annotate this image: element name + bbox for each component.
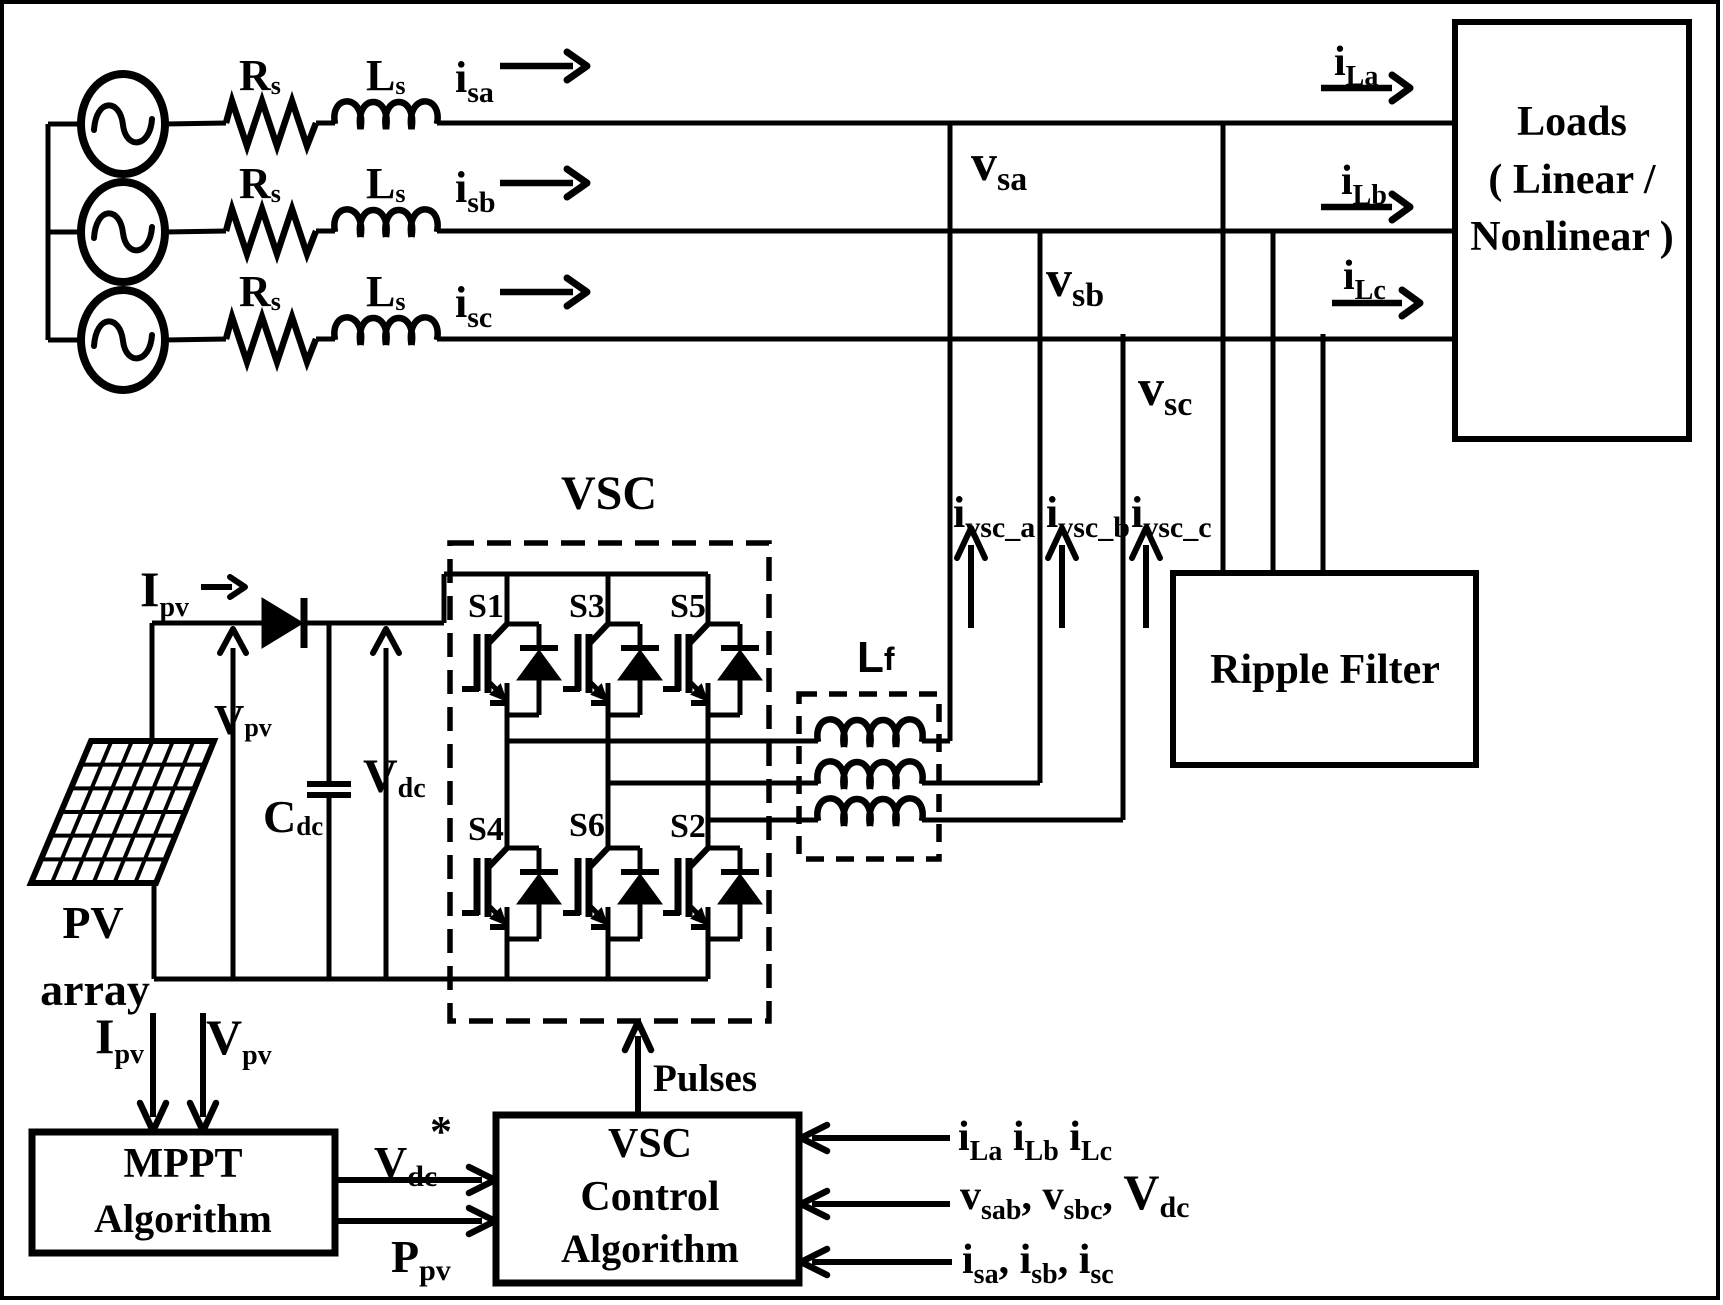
label i_La i_Lb i_Lc input with arrow [801,1114,1112,1167]
Lf dashed box [799,694,939,859]
svg-text:PV: PV [62,897,123,948]
label Pulses with arrow to VSC [625,1022,757,1115]
PV array panel [31,741,214,883]
wire diode to VSC dc rail [303,574,708,623]
svg-text:Ripple Filter: Ripple Filter [1210,647,1440,693]
VSC converter dashed box [450,543,769,1021]
resistor Rs (phase a) [226,101,316,146]
wire Lf a to grid node [922,739,950,744]
label i_sb with arrow [455,163,587,219]
svg-text:Nonlinear ): Nonlinear ) [1470,214,1673,260]
wire phase c VSC output to Lf [708,818,818,823]
svg-text:S6: S6 [569,807,605,844]
inductor Lf phase a [817,719,922,747]
wire VSC leg c [706,574,711,979]
block Ripple Filter [1173,573,1476,765]
resistor Rs (phase b) [226,209,316,254]
wire phase c: inductor to Loads [437,337,1455,342]
label V_dc with measurement arrow [363,629,426,979]
label V_dc* with arrow MPPT to VSC control [336,1107,495,1193]
ac source Vb [81,182,165,282]
wire PV left leg down to panel [150,623,155,741]
svg-text:S3: S3 [569,588,605,625]
transistor S5 (IGBT with freewheeling diode) [663,624,762,715]
label i_vsc_c with arrow [1131,488,1212,628]
transistor S1 (IGBT with freewheeling diode) [462,624,561,715]
svg-text:S1: S1 [468,588,504,625]
svg-text:Pulses: Pulses [653,1057,757,1100]
ac source Va [81,74,165,174]
label I_pv (to MPPT) with arrow [95,1008,166,1131]
wire / node v_sc : phase c down to Lf [1121,334,1126,820]
label v_sab, v_sbc, V_dc input with arrow [801,1164,1189,1226]
wire VSC leg b [606,574,611,979]
svg-text:Lf: Lf [857,633,895,682]
wire phase c: source to resistor [165,339,226,340]
ac source Vc [81,290,165,390]
wire PV bottom to dc negative bus [152,883,157,979]
wire VSC leg a [505,574,510,979]
wire phase a to ripple filter [1221,123,1226,573]
wire Lf b to grid node [922,781,1040,786]
wire PV positive to diode [152,621,262,626]
label i_vsc_b with arrow [1046,488,1130,628]
svg-text:S4: S4 [468,811,504,848]
svg-text:MPPT: MPPT [124,1141,243,1187]
resistor Rs (phase c) [226,317,316,362]
block VSC Control Algorithm [496,1115,799,1283]
wire phase a: source to resistor [165,123,226,124]
transistor S6 (IGBT with freewheeling diode) [563,848,662,939]
inductor Lf phase b [817,761,922,789]
blocking diode D1 [262,598,304,648]
wire phase c: resistor to inductor [316,337,335,342]
svg-text:( Linear /: ( Linear / [1488,157,1657,203]
label i_La with arrow [1321,39,1410,101]
svg-text:S5: S5 [670,588,706,625]
transistor S3 (IGBT with freewheeling diode) [563,624,662,715]
wire / node v_sb : phase b down to Lf [1038,231,1043,783]
transistor S2 (IGBT with freewheeling diode) [663,848,762,939]
wire phase b to ripple filter [1271,231,1276,573]
wire phase a: inductor to Loads [437,121,1455,126]
svg-text:S2: S2 [670,808,706,845]
label i_Lb with arrow [1321,158,1410,220]
label i_sa, i_sb, i_sc input with arrow [801,1237,1114,1290]
wire neutral bus connecting sources [48,124,81,340]
wire Lf c to grid node [922,818,1123,823]
svg-text:Control: Control [580,1174,719,1220]
label i_sc with arrow [455,278,587,334]
capacitor Cdc [307,623,351,979]
wire phase b: source to resistor [165,231,226,232]
inductor Lf phase c [817,798,922,826]
inductor Ls (phase c) [334,317,437,345]
label V_pv with measurement arrow [214,629,272,979]
svg-text:Algorithm: Algorithm [94,1196,272,1241]
label i_vsc_a with arrow [953,488,1035,628]
svg-text:*: * [430,1107,452,1156]
wire phase a: resistor to inductor [316,121,335,126]
wire phase b VSC output to Lf [608,781,818,786]
label PV array [40,897,150,1015]
label i_Lc with arrow [1332,253,1420,316]
wire phase b: resistor to inductor [316,229,335,234]
label i_sa with arrow [455,52,587,109]
transistor S4 (IGBT with freewheeling diode) [462,848,561,939]
label V_pv (to MPPT) with arrow [190,1009,272,1131]
wire phase b: inductor to Loads [437,229,1455,234]
svg-text:Loads: Loads [1517,99,1627,145]
inductor Ls (phase a) [334,101,437,129]
wire phase c to ripple filter [1321,334,1326,573]
svg-text:VSC: VSC [561,467,657,520]
wire phase a VSC output to Lf [507,739,818,744]
wire / node v_sa : phase a down to Lf [948,123,953,741]
label P_pv with arrow MPPT to VSC control [336,1208,495,1287]
label I_pv with arrow [140,561,245,623]
inductor Ls (phase b) [334,209,437,237]
wire dc negative bus [154,977,708,982]
block MPPT Algorithm [32,1132,335,1253]
block Loads (Linear / Nonlinear) [1455,22,1689,439]
svg-text:VSC: VSC [608,1121,692,1167]
svg-text:Algorithm: Algorithm [561,1226,739,1271]
